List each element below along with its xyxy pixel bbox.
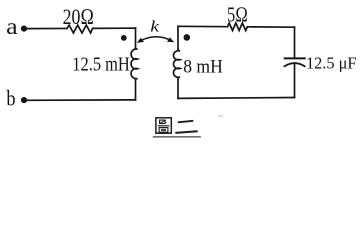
right loop left edge upper segment xyxy=(177,26,179,50)
wire resistor to top-right corner of right loop xyxy=(247,26,294,28)
svg-text:b: b xyxy=(6,85,15,110)
char tu inner lower tick xyxy=(162,129,166,130)
wire top of right loop to resistor R2 xyxy=(178,25,228,27)
char tu inner top diagonal xyxy=(160,120,165,123)
svg-text:20Ω: 20Ω xyxy=(63,4,94,29)
svg-text:a: a xyxy=(6,14,18,40)
caption figure 2 : hand-drawn CJK xyxy=(156,118,198,133)
polarity dot left xyxy=(121,35,127,41)
svg-text:12.5 mH: 12.5 mH xyxy=(72,55,130,76)
svg-text:8 mH: 8 mH xyxy=(183,58,223,78)
char er (two) top stroke xyxy=(178,121,194,123)
arrowhead left of k arrow xyxy=(137,38,144,43)
inductor L2 8mH coil xyxy=(173,50,180,77)
char tu inner top mouth xyxy=(160,120,166,123)
polarity dot right xyxy=(184,34,191,41)
resistor 5ohm zigzag xyxy=(228,23,248,31)
capacitor C1 top plate xyxy=(285,57,305,59)
caption underline xyxy=(153,136,201,138)
wire resistor to top-right corner of left loop xyxy=(93,27,136,29)
svg-text:k: k xyxy=(150,19,160,36)
char er (two) bottom stroke xyxy=(175,131,197,133)
wire bottom of right loop xyxy=(178,97,295,100)
char tu inner lower box xyxy=(159,128,168,133)
wire a to resistor R1 xyxy=(27,27,68,29)
wire left loop right edge upper segment xyxy=(135,28,137,48)
char tu (picture) outer box xyxy=(156,118,171,133)
arrowhead right of k arrow xyxy=(167,37,174,42)
terminal a dot xyxy=(21,26,27,32)
wire bottom of left loop xyxy=(27,99,136,101)
terminal b dot xyxy=(21,97,27,103)
resistor 20ohm zigzag xyxy=(67,25,93,33)
faint smudge artifact xyxy=(218,115,223,117)
inductor L1 12.5mH coil xyxy=(131,49,138,79)
right loop left edge lower segment xyxy=(177,78,179,99)
right loop right edge upper segment xyxy=(294,27,296,58)
capacitor C1 curved bottom plate xyxy=(285,63,305,66)
char tu inner middle bar xyxy=(158,125,170,127)
wire left loop right edge lower segment xyxy=(135,79,137,100)
right loop right edge lower segment xyxy=(294,65,296,98)
svg-text:12.5 μF: 12.5 μF xyxy=(306,54,357,73)
coupling arrow k xyxy=(140,37,172,41)
svg-text:5Ω: 5Ω xyxy=(227,2,248,26)
